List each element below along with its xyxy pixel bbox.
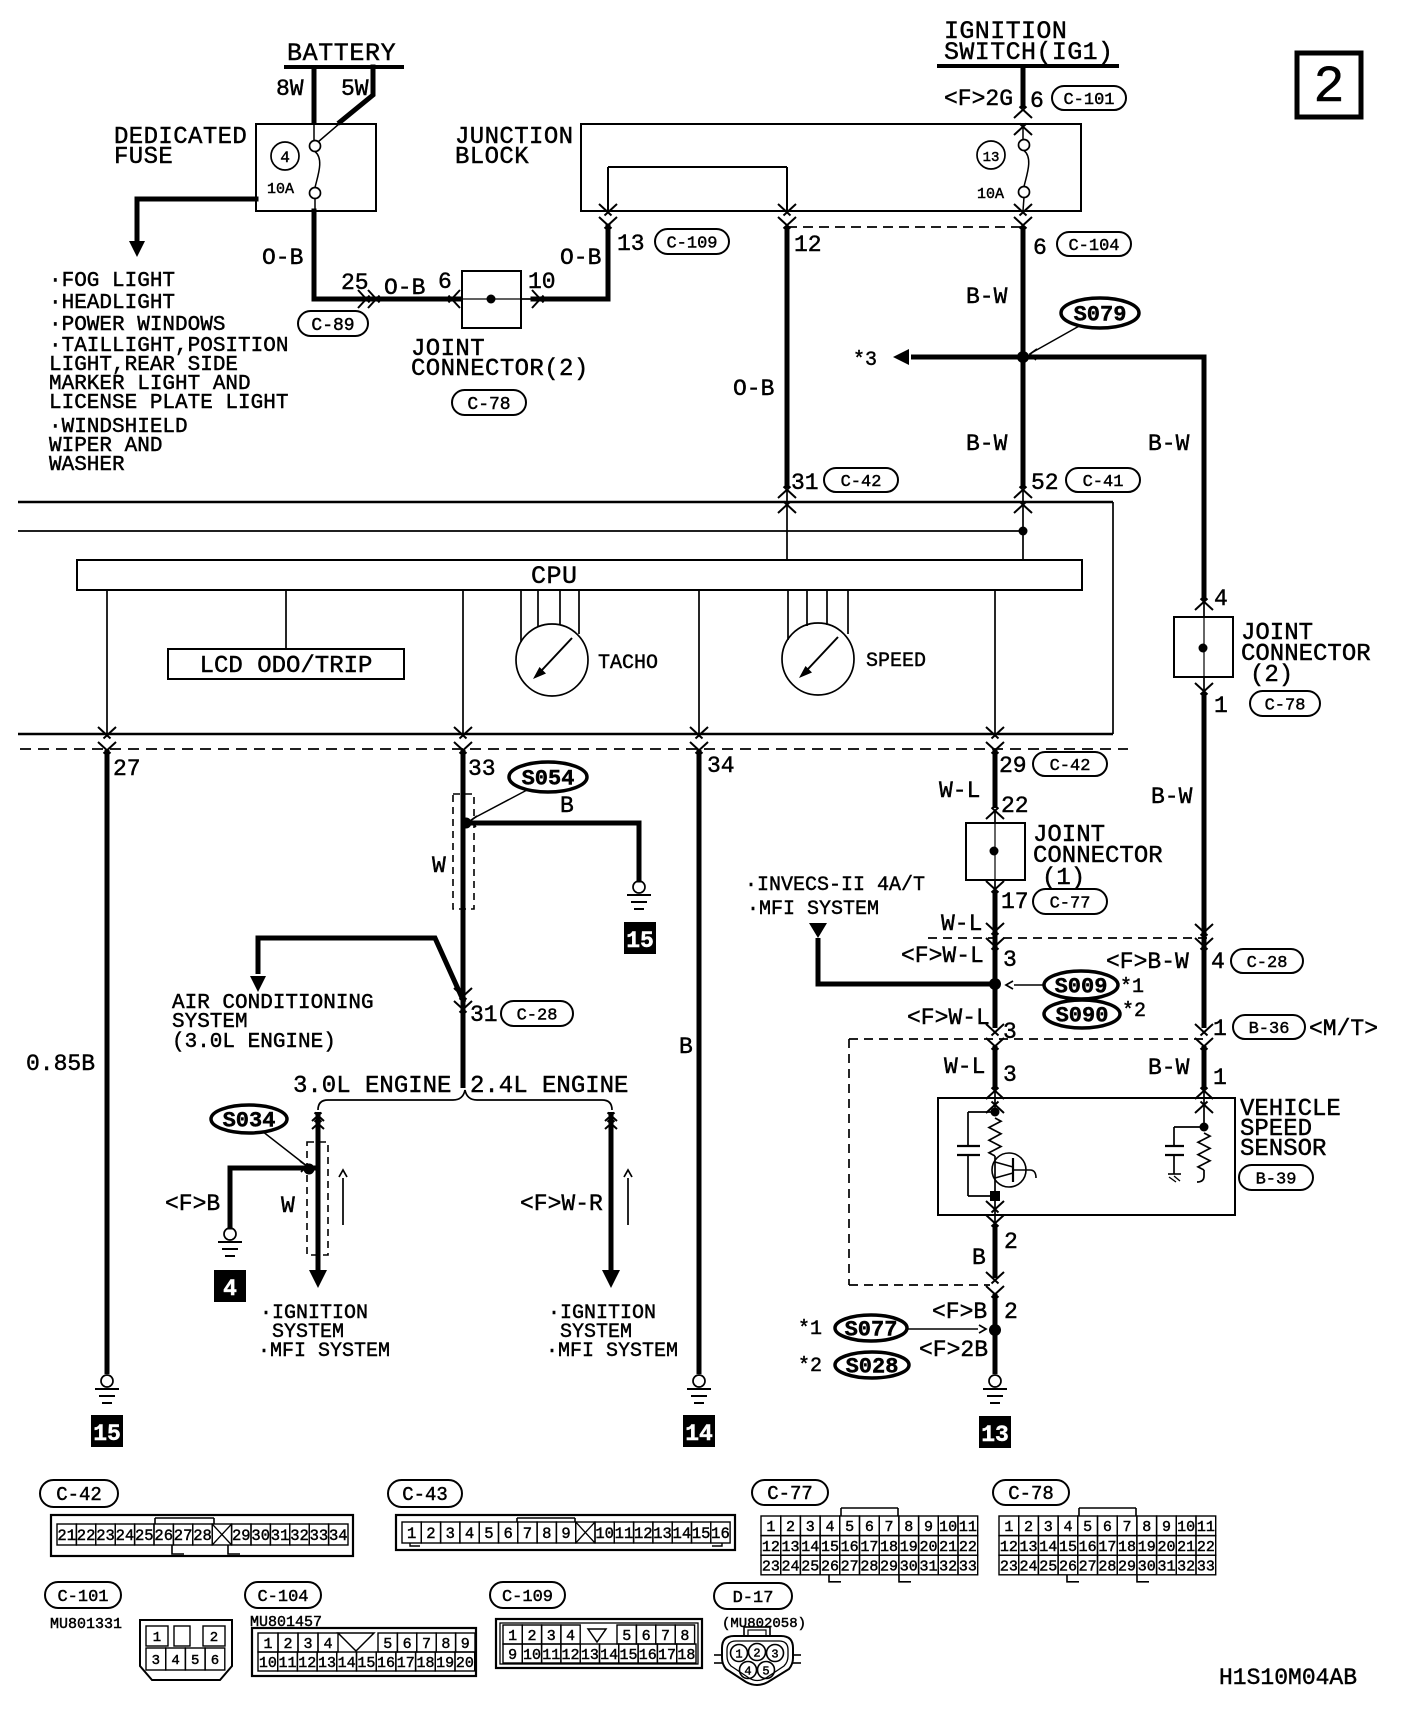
wire 3.0L engine ignition feed (309, 1112, 327, 1288)
svg-text:C-42: C-42 (841, 473, 882, 492)
svg-text:9: 9 (1162, 1519, 1171, 1536)
label 6 C-104 (1033, 232, 1131, 261)
svg-text:C-101: C-101 (1063, 91, 1114, 110)
svg-text:11: 11 (615, 1525, 634, 1543)
svg-text:30: 30 (251, 1527, 270, 1545)
svg-text:C-78: C-78 (1008, 1483, 1054, 1505)
svg-text:17: 17 (1098, 1539, 1116, 1556)
connector C-89 (298, 311, 368, 336)
svg-text:B: B (560, 793, 574, 819)
connector D-17 part number (722, 1616, 806, 1632)
junction block internal bus (608, 167, 787, 211)
svg-text:25: 25 (341, 270, 369, 296)
svg-text:2: 2 (426, 1525, 435, 1543)
svg-text:15: 15 (626, 928, 654, 954)
splice S054 (470, 762, 587, 827)
svg-text:17: 17 (860, 1539, 878, 1556)
svg-text:23: 23 (762, 1558, 780, 1575)
svg-text:*1: *1 (798, 1318, 822, 1341)
svg-text:14: 14 (600, 1647, 618, 1664)
svg-text:SENSOR: SENSOR (1240, 1136, 1326, 1163)
svg-text:B-W: B-W (966, 431, 1008, 457)
svg-text:4: 4 (744, 1665, 751, 1679)
svg-text:·MFI SYSTEM: ·MFI SYSTEM (546, 1340, 678, 1363)
label F 2G (944, 86, 1013, 112)
connector C-78 pinout (999, 1508, 1216, 1582)
connector B-39 label (1239, 1165, 1313, 1190)
ground marker 4 (214, 1270, 246, 1302)
svg-text:16: 16 (841, 1539, 859, 1556)
svg-text:10A: 10A (977, 186, 1004, 203)
svg-text:2: 2 (283, 1636, 292, 1653)
label F W-L 3 upper (901, 943, 1017, 973)
wire B pin 34 to ground (679, 750, 699, 1374)
svg-text:1: 1 (1004, 1519, 1013, 1536)
svg-text:6: 6 (865, 1519, 874, 1536)
svg-text:(2): (2) (1250, 662, 1293, 689)
connector C-101 label (45, 1582, 121, 1608)
svg-text:6: 6 (503, 1525, 512, 1543)
svg-text:*1: *1 (1120, 976, 1144, 999)
ground G4 (218, 1228, 242, 1256)
svg-text:25: 25 (801, 1558, 819, 1575)
svg-text:10: 10 (939, 1519, 957, 1536)
svg-text:W-L: W-L (944, 1054, 985, 1080)
pin 31 C-28 crossing arrows (454, 988, 472, 1013)
wire fuse to accessory loads (129, 199, 256, 257)
svg-text:28: 28 (860, 1558, 878, 1575)
svg-text:13: 13 (653, 1525, 672, 1543)
svg-text:4: 4 (171, 1653, 179, 1669)
svg-text:3: 3 (446, 1525, 455, 1543)
svg-text:O-B: O-B (733, 376, 774, 402)
svg-text:TACHO: TACHO (598, 652, 658, 675)
pin 1 crossing arrow (1195, 677, 1228, 719)
svg-text:6: 6 (1103, 1519, 1112, 1536)
svg-text:52: 52 (1031, 470, 1059, 496)
svg-text:13: 13 (617, 231, 645, 257)
svg-text:15: 15 (357, 1655, 375, 1672)
wire CPU to LCD (285, 590, 287, 649)
node sensor input dot (991, 1108, 1000, 1117)
svg-text:C-89: C-89 (311, 316, 354, 336)
pin 33 crossing arrows (454, 727, 496, 782)
svg-text:14: 14 (685, 1421, 713, 1447)
svg-text:3: 3 (1044, 1519, 1053, 1536)
node sensor right dot (1200, 1123, 1209, 1132)
pin 4 C-28 crossing arrows (1195, 924, 1213, 950)
svg-text:7: 7 (422, 1636, 431, 1653)
pin 3 C-28 crossing arrows (986, 923, 1004, 950)
svg-text:11: 11 (542, 1647, 560, 1664)
ground G15 via S054 (627, 881, 651, 909)
label 13 C-109 (617, 229, 729, 257)
svg-text:17: 17 (658, 1647, 676, 1664)
svg-text:28: 28 (193, 1527, 212, 1545)
svg-text:25: 25 (135, 1527, 154, 1545)
CPU (77, 560, 1082, 591)
svg-text:26: 26 (1059, 1558, 1077, 1575)
svg-text:H1S10M04AB: H1S10M04AB (1219, 1665, 1357, 1691)
capacitor C sensor right (1165, 1127, 1204, 1182)
splice S009 (1006, 971, 1144, 1000)
svg-text:2: 2 (1313, 58, 1344, 117)
svg-text:5: 5 (762, 1665, 769, 1679)
svg-text:CONNECTOR(2): CONNECTOR(2) (411, 356, 589, 383)
ignition system label 2.4L (546, 1302, 678, 1363)
splice S090 (1044, 1000, 1146, 1029)
connector C-42 pinout (51, 1515, 353, 1556)
svg-text:22: 22 (1197, 1539, 1215, 1556)
ground marker 13 (979, 1416, 1011, 1448)
svg-text:25: 25 (1039, 1558, 1057, 1575)
pin 1 B-36 crossing arrows (1195, 1024, 1213, 1050)
svg-text:12: 12 (762, 1539, 780, 1556)
svg-text:27: 27 (1079, 1558, 1097, 1575)
svg-text:8: 8 (542, 1525, 551, 1543)
svg-text:C-41: C-41 (1083, 473, 1124, 492)
node splice S077 junction dot (989, 1324, 1001, 1336)
pin 6 C-104 crossing arrows (1014, 204, 1032, 229)
svg-text:10: 10 (595, 1525, 614, 1543)
svg-text:WASHER: WASHER (49, 454, 125, 477)
wire branch to INVECS MFI (809, 923, 995, 984)
label 29 C-42 (999, 752, 1107, 779)
connector C-42 label (40, 1480, 118, 1507)
pin arrows joint connector C-78 (449, 290, 544, 308)
svg-text:16: 16 (711, 1525, 730, 1543)
wire 0.85B pin 27 to ground (26, 750, 107, 1374)
svg-text:<F>W-L: <F>W-L (901, 943, 984, 969)
svg-text:13: 13 (782, 1539, 800, 1556)
svg-text:C-28: C-28 (517, 1006, 558, 1025)
pin 22 crossing arrow (986, 808, 1004, 824)
wire CPU pin 33 (462, 590, 464, 734)
svg-text:8: 8 (680, 1628, 689, 1645)
svg-text:S028: S028 (846, 1355, 899, 1380)
svg-text:20: 20 (1157, 1539, 1175, 1556)
transistor Q sensor (992, 1153, 1036, 1196)
svg-text:7: 7 (885, 1519, 894, 1536)
svg-text:13: 13 (318, 1655, 336, 1672)
svg-text:3: 3 (1003, 947, 1017, 973)
svg-text:19: 19 (1138, 1539, 1156, 1556)
svg-text:29: 29 (880, 1558, 898, 1575)
svg-text:<F>B: <F>B (932, 1299, 987, 1325)
svg-text:2: 2 (786, 1519, 795, 1536)
svg-text:C-104: C-104 (1068, 237, 1119, 256)
svg-text:1: 1 (1213, 1016, 1227, 1042)
svg-text:B-W: B-W (1148, 431, 1190, 457)
connector C-78 label upper (452, 390, 526, 415)
wires CPU to tacho gauge (521, 590, 579, 642)
svg-text:20: 20 (456, 1655, 474, 1672)
svg-text:6: 6 (403, 1636, 412, 1653)
connector boundary B-36 dashed region (849, 1039, 1204, 1285)
wire W-L into sensor (944, 1046, 1017, 1090)
svg-text:31: 31 (791, 470, 819, 496)
svg-text:23: 23 (96, 1527, 115, 1545)
cluster internal bus line (18, 527, 1028, 561)
svg-text:16: 16 (1079, 1539, 1097, 1556)
svg-text:4: 4 (223, 1276, 237, 1302)
svg-text:3: 3 (547, 1628, 556, 1645)
svg-text:B-W: B-W (1148, 1055, 1190, 1081)
label F W-L 3 lower (907, 1005, 1017, 1045)
svg-text:3: 3 (1003, 1062, 1017, 1088)
accessory load list (49, 270, 288, 477)
svg-text:16: 16 (639, 1647, 657, 1664)
pin 27 crossing arrows (98, 727, 141, 782)
svg-text:<F>2G: <F>2G (944, 86, 1013, 112)
svg-text:31: 31 (470, 1002, 498, 1028)
pin 12 crossing arrows (778, 204, 796, 229)
connector C-78 label (993, 1480, 1069, 1505)
ground marker 15 left (91, 1415, 123, 1447)
svg-text:6: 6 (1030, 88, 1044, 114)
label 6 C-101 (1030, 86, 1126, 114)
svg-text:O-B: O-B (560, 245, 601, 271)
pin 6 C-101 crossing arrows (1014, 107, 1032, 136)
label 1 B-36 M/T (1213, 1015, 1378, 1042)
wire F B to ground 4 (165, 1164, 318, 1228)
connector C-43 label (388, 1480, 462, 1507)
pin 34 crossing arrows (690, 727, 735, 779)
svg-text:3: 3 (303, 1636, 312, 1653)
svg-text:1: 1 (1213, 1065, 1227, 1091)
ignition system label 3.0L (258, 1302, 390, 1363)
svg-text:17: 17 (397, 1655, 415, 1672)
fuse element 4 10A (310, 124, 340, 211)
svg-text:4: 4 (1211, 949, 1225, 975)
wire B splice S054 to ground (466, 793, 639, 880)
svg-text:C-43: C-43 (402, 1484, 448, 1506)
svg-text:9: 9 (561, 1525, 570, 1543)
svg-text:5: 5 (383, 1636, 392, 1653)
svg-text:C-42: C-42 (1050, 757, 1091, 776)
svg-text:24: 24 (116, 1527, 135, 1545)
svg-text:11: 11 (1197, 1519, 1215, 1536)
svg-text:*2: *2 (1122, 1000, 1146, 1023)
svg-text:29: 29 (1118, 1558, 1136, 1575)
wire 2.4L engine ignition feed (602, 1112, 620, 1288)
svg-text:6: 6 (1033, 235, 1047, 261)
ignition switch IG1 (937, 17, 1119, 67)
svg-text:W-L: W-L (941, 911, 982, 937)
svg-text:33: 33 (1197, 1558, 1215, 1575)
svg-text:27: 27 (174, 1527, 193, 1545)
svg-text:19: 19 (900, 1539, 918, 1556)
svg-text:LCD ODO/TRIP: LCD ODO/TRIP (200, 653, 373, 680)
svg-text:12: 12 (634, 1525, 653, 1543)
svg-text:15: 15 (619, 1647, 637, 1664)
pin 31 crossing arrows (778, 487, 796, 561)
svg-text:22: 22 (1001, 793, 1029, 819)
svg-text:8: 8 (1142, 1519, 1151, 1536)
svg-text:4: 4 (465, 1525, 474, 1543)
svg-text:B: B (972, 1245, 986, 1271)
ground marker 15 right (624, 922, 656, 954)
joint connector (2) C-78 box upper (411, 271, 589, 383)
svg-text:4: 4 (825, 1519, 834, 1536)
svg-text:5: 5 (191, 1653, 199, 1669)
resistor R sensor left (989, 1118, 1001, 1156)
svg-text:·MFI SYSTEM: ·MFI SYSTEM (747, 898, 879, 921)
svg-text:22: 22 (77, 1527, 96, 1545)
engine harness bracket (293, 1073, 628, 1110)
wire O-B to junction block (533, 226, 608, 299)
svg-text:10: 10 (528, 269, 556, 295)
svg-text:11: 11 (279, 1655, 297, 1672)
svg-text:C-109: C-109 (666, 234, 717, 253)
dashed link junction block outputs (787, 226, 1023, 228)
svg-text:·HEADLIGHT: ·HEADLIGHT (49, 292, 175, 315)
label F 2B (919, 1337, 988, 1363)
svg-text:12: 12 (562, 1647, 580, 1664)
svg-text:C-77: C-77 (1050, 894, 1091, 913)
splice S077 (798, 1315, 986, 1343)
wire W-L joint connector to C-28 (941, 891, 995, 1028)
svg-text:32: 32 (939, 1558, 957, 1575)
label O-B 6 (384, 269, 452, 301)
svg-text:15: 15 (692, 1525, 711, 1543)
sensor output crossing arrows (986, 1196, 1004, 1227)
wire *3 branch (853, 349, 1023, 372)
svg-text:24: 24 (782, 1558, 800, 1575)
splice S079 (1030, 298, 1139, 360)
svg-text:·FOG LIGHT: ·FOG LIGHT (49, 270, 175, 293)
label 25 C-89 (341, 270, 369, 296)
svg-text:16: 16 (377, 1655, 395, 1672)
svg-text:<F>B-W: <F>B-W (1106, 949, 1189, 975)
svg-text:18: 18 (880, 1539, 898, 1556)
wire B-W splice down to cluster (966, 357, 1190, 488)
svg-text:31: 31 (1157, 1558, 1175, 1575)
svg-text:28: 28 (1098, 1558, 1116, 1575)
svg-text:29: 29 (232, 1527, 251, 1545)
svg-text:B-W: B-W (1151, 784, 1193, 810)
svg-text:18: 18 (1118, 1539, 1136, 1556)
svg-text:18: 18 (677, 1647, 695, 1664)
label 52 C-41 (1031, 468, 1140, 496)
svg-text:34: 34 (707, 753, 735, 779)
wire CPU pin 29 (994, 590, 996, 734)
svg-text:8W: 8W (276, 76, 304, 102)
flow arrow 2.4L (624, 1170, 632, 1225)
svg-text:30: 30 (1138, 1558, 1156, 1575)
wire W pin 33 (432, 750, 463, 1010)
svg-text:24: 24 (1020, 1558, 1038, 1575)
connector C-77 label (752, 1480, 828, 1505)
svg-text:4: 4 (1214, 586, 1228, 612)
svg-text:27: 27 (113, 756, 141, 782)
tacho gauge (516, 624, 658, 696)
node splice S009 junction dot (989, 978, 1001, 990)
svg-text:O-B: O-B (384, 275, 425, 301)
sensor pin 3 crossing arrows (986, 1088, 1004, 1114)
svg-text:14: 14 (673, 1525, 692, 1543)
svg-text:FUSE: FUSE (114, 144, 173, 171)
sensor pin 1 crossing arrows (1195, 1088, 1213, 1128)
svg-text:31: 31 (919, 1558, 937, 1575)
node sensor output dot (990, 1191, 1000, 1201)
svg-text:MU801331: MU801331 (50, 1616, 122, 1633)
svg-text:14: 14 (338, 1655, 356, 1672)
svg-text:<F>2B: <F>2B (919, 1337, 988, 1363)
svg-text:21: 21 (57, 1527, 76, 1545)
svg-text:S034: S034 (223, 1109, 276, 1134)
svg-text:3: 3 (1003, 1019, 1017, 1045)
svg-text:W: W (432, 853, 446, 879)
wire B-W to joint connector 2 (1151, 784, 1193, 810)
connector C-101 pinout (140, 1620, 232, 1680)
svg-text:2: 2 (753, 1647, 760, 1661)
wire W-L to sensor connector (993, 984, 998, 1028)
svg-text:S054: S054 (522, 767, 575, 792)
svg-text:·MFI SYSTEM: ·MFI SYSTEM (258, 1340, 390, 1363)
svg-text:18: 18 (416, 1655, 434, 1672)
svg-text:D-17: D-17 (733, 1589, 774, 1608)
svg-text:B-W: B-W (966, 284, 1008, 310)
flow arrow 3.0L (339, 1170, 347, 1225)
ground marker 14 (683, 1415, 715, 1447)
fuse 13 rating circle (977, 141, 1005, 203)
wire 8W battery to fuse (276, 67, 314, 124)
splice S034 (211, 1105, 307, 1172)
svg-text:26: 26 (821, 1558, 839, 1575)
pin 13 C-109 crossing arrows (599, 204, 617, 229)
svg-text:1: 1 (153, 1630, 161, 1646)
svg-text:26: 26 (154, 1527, 173, 1545)
svg-text:1: 1 (263, 1636, 272, 1653)
svg-text:10: 10 (259, 1655, 277, 1672)
pin 3 crossing arrows lower (986, 1024, 1004, 1050)
svg-text:29: 29 (999, 753, 1027, 779)
svg-text:B-36: B-36 (1249, 1020, 1290, 1039)
svg-text:C-109: C-109 (502, 1588, 553, 1607)
svg-text:9: 9 (461, 1636, 470, 1653)
svg-text:1: 1 (1214, 693, 1228, 719)
joint connector (2) C-78 box right (1174, 617, 1371, 689)
connector D-17 pinout (714, 1627, 801, 1685)
svg-text:13: 13 (1020, 1539, 1038, 1556)
svg-text:C-28: C-28 (1247, 954, 1288, 973)
svg-text:7: 7 (661, 1628, 670, 1645)
svg-text:15: 15 (821, 1539, 839, 1556)
node S054 junction dot (461, 818, 472, 829)
wire W to engine branch (461, 1010, 466, 1088)
label F W-R (520, 1191, 603, 1217)
svg-text:7: 7 (523, 1525, 532, 1543)
label 31 C-28 (470, 1001, 573, 1028)
svg-text:3: 3 (152, 1653, 160, 1669)
vehicle speed sensor box B-39 (938, 1096, 1341, 1215)
connector boundary C-42 C-43 dashed (20, 748, 1128, 750)
connector C-77 label mid (1033, 889, 1107, 914)
label F B-W 4 C-28 (1106, 949, 1303, 975)
svg-text:6: 6 (211, 1653, 219, 1669)
connector C-104 label (245, 1582, 321, 1608)
svg-text:4: 4 (280, 149, 290, 167)
svg-text:*3: *3 (853, 349, 877, 372)
svg-text:14: 14 (801, 1539, 819, 1556)
pin 29 crossing arrows (986, 727, 1004, 754)
svg-text:1: 1 (766, 1519, 775, 1536)
svg-text:2.4L ENGINE: 2.4L ENGINE (470, 1073, 628, 1100)
svg-text:B-39: B-39 (1256, 1170, 1297, 1189)
svg-text:C-78: C-78 (1265, 696, 1306, 715)
INVECS MFI label (745, 874, 925, 921)
